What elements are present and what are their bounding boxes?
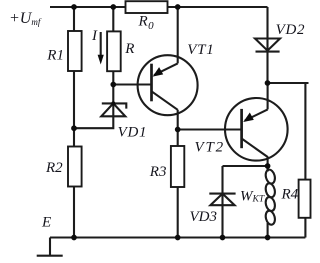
node top rail / R bbox=[110, 4, 116, 10]
wire top rail bbox=[50, 6, 268, 8]
node VD2 / VT2 emitter / R4 bbox=[265, 80, 271, 86]
ground E bbox=[49, 238, 51, 256]
svg-text:E: E bbox=[41, 215, 51, 231]
svg-text:VT1: VT1 bbox=[187, 42, 214, 58]
wire VT1 base bbox=[113, 83, 151, 85]
svg-text:VT2: VT2 bbox=[195, 139, 225, 155]
svg-text:R1: R1 bbox=[46, 48, 64, 64]
node R1 / R2 / VD1 bbox=[71, 125, 77, 131]
node top rail / R1 bbox=[71, 4, 77, 10]
node VT2 collector / VD3 / winding bbox=[265, 163, 271, 169]
node VT1 collector / R3 / VT2 base bbox=[175, 127, 181, 133]
svg-text:R2: R2 bbox=[45, 160, 63, 176]
transistor VT2 bbox=[225, 98, 288, 161]
transistor VT1 bbox=[138, 55, 198, 115]
svg-text:R: R bbox=[124, 41, 134, 57]
wire VT2 base bbox=[178, 128, 242, 130]
wire VD2 branch bbox=[266, 7, 268, 83]
wire VD3 branch bbox=[223, 165, 268, 167]
node top rail / VT1 emitter bbox=[175, 4, 181, 10]
diode VD3 bbox=[209, 193, 235, 195]
svg-text:R3: R3 bbox=[149, 164, 167, 180]
wire node to R4 branch bbox=[268, 83, 309, 238]
svg-text:I: I bbox=[91, 28, 98, 44]
svg-text:VD2: VD2 bbox=[276, 22, 306, 38]
wire VT2 collector down bbox=[267, 157, 269, 172]
resistor R4 bbox=[299, 180, 311, 218]
wire R column down through VD1 then left to R1/R2 node bbox=[74, 7, 113, 128]
resistor R1 bbox=[68, 31, 82, 71]
svg-text:VD3: VD3 bbox=[190, 209, 218, 225]
inductor winding WKT bbox=[267, 166, 269, 172]
resistor R bbox=[107, 31, 121, 71]
wire VT1 emitter to top rail bbox=[177, 7, 179, 63]
svg-text:R4: R4 bbox=[281, 186, 299, 202]
node bottom rail / R3 bbox=[175, 235, 181, 241]
wire left branch (R1/R2 column) bbox=[73, 7, 75, 238]
node bottom rail / R2 bbox=[71, 235, 77, 241]
diode VD1 (zener) bbox=[102, 103, 127, 108]
node bottom rail / VD3 bbox=[220, 235, 226, 241]
node R bottom / VT1 base bbox=[110, 82, 116, 88]
resistor R2 bbox=[68, 147, 82, 187]
wire VT1 collector down to node / R3 column bbox=[177, 110, 179, 238]
current arrow I bbox=[100, 32, 102, 56]
resistor R3 bbox=[171, 146, 184, 187]
node bottom rail / winding bbox=[265, 235, 271, 241]
svg-text:VD1: VD1 bbox=[118, 125, 148, 141]
resistor R0 bbox=[126, 1, 168, 13]
wire bottom rail bbox=[50, 236, 305, 238]
wire VT2 emitter up bbox=[267, 83, 269, 109]
diode VD2 bbox=[255, 39, 280, 51]
